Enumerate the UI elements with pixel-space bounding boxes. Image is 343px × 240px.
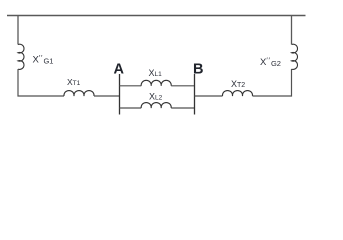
svg-text:X′′G2: X′′G2 (260, 55, 281, 68)
wire: X''G1 to bottom-left corner to XT1 (18, 69, 64, 96)
wire: XL1 to node B (171, 85, 194, 87)
wire: XT1 to node A (94, 95, 120, 97)
wire: XL2 to node B (171, 107, 194, 109)
wire: node A to XL1 (120, 85, 142, 87)
svg-text:XL2: XL2 (149, 92, 163, 102)
reactor XT2 coil (222, 91, 252, 96)
svg-text:XT1: XT1 (67, 77, 81, 87)
wire: node B to XT2 (195, 95, 223, 97)
svg-text:XL1: XL1 (149, 68, 163, 78)
reactor XT1 coil (64, 91, 94, 96)
svg-text:A: A (114, 62, 125, 78)
node B busbar (194, 74, 196, 115)
wire: top bus (7, 15, 306, 17)
wire: right riser from X''G2 to top bus (291, 16, 293, 45)
svg-text:XT2: XT2 (231, 79, 245, 89)
reactor X''G2 coil (292, 44, 298, 69)
node A busbar (119, 74, 121, 115)
wire: node A to XL2 (120, 107, 142, 109)
svg-text:B: B (193, 62, 203, 78)
wire: left drop from top bus (17, 16, 19, 45)
svg-text:X′′G1: X′′G1 (33, 53, 54, 66)
wire: XT2 to right riser corner (253, 69, 292, 96)
reactor XL2 coil (141, 103, 171, 108)
reactor XL1 coil (141, 80, 171, 85)
reactor X''G1 coil (18, 44, 24, 69)
